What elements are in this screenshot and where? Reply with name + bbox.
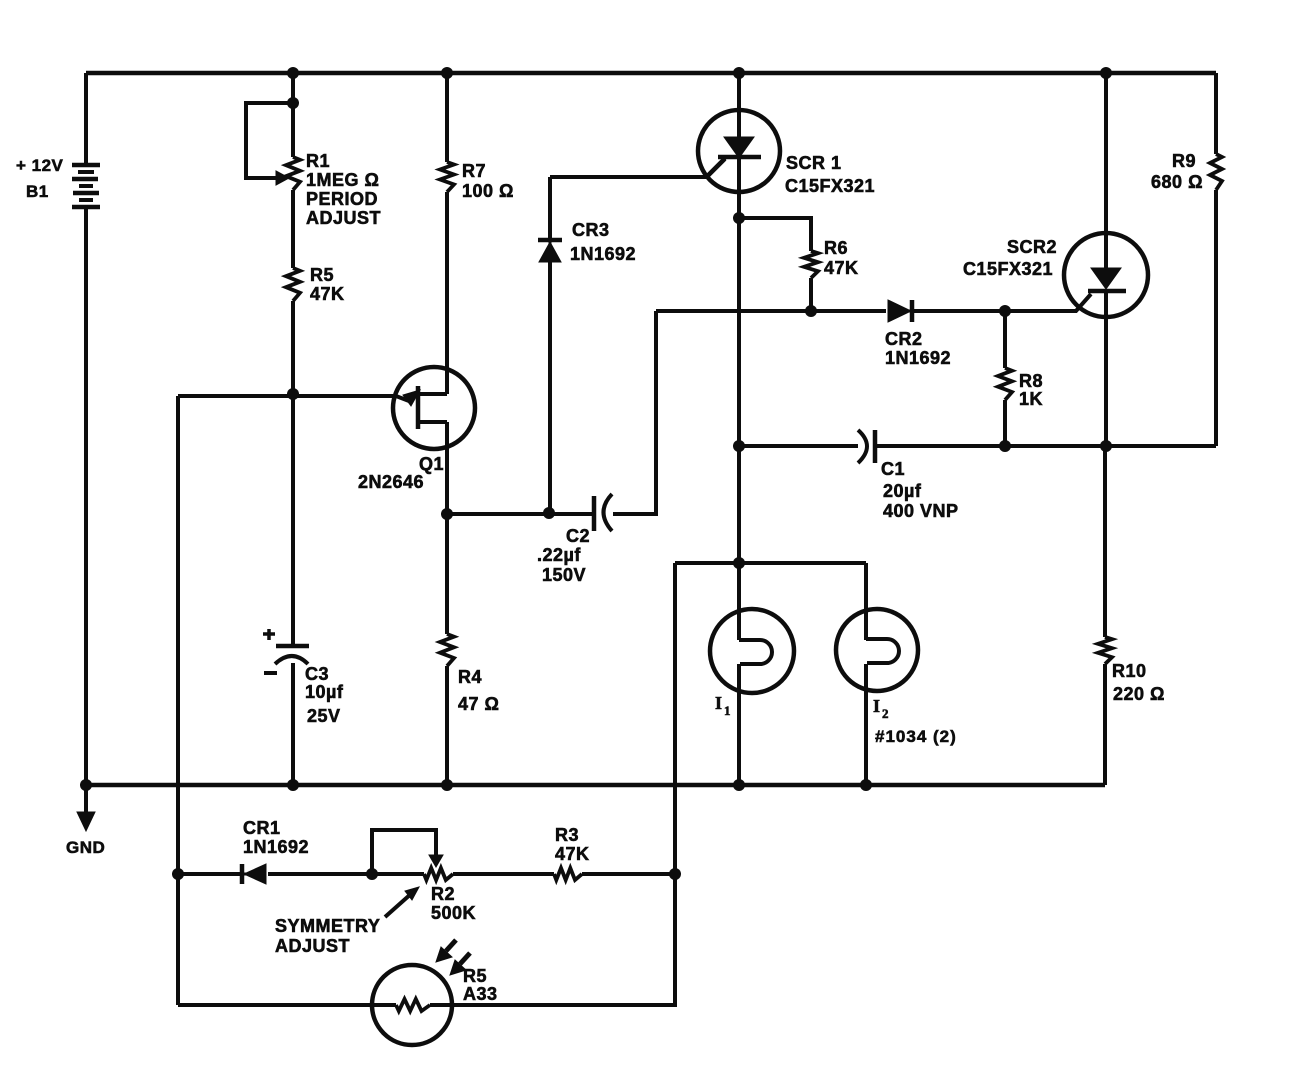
SCR1 triangle <box>724 137 754 158</box>
node dot Q1 base1 node <box>441 508 453 520</box>
wire R8 top <box>1003 311 1007 368</box>
svg-text:150V: 150V <box>542 565 586 585</box>
svg-text:R5: R5 <box>310 265 334 285</box>
svg-text:25V: 25V <box>307 706 341 726</box>
svg-text:R10: R10 <box>1112 661 1147 681</box>
node dot SCR1 cathode/R6 <box>733 212 745 224</box>
svg-text:R2: R2 <box>431 884 455 904</box>
svg-text:10µf: 10µf <box>305 682 344 702</box>
wire gate bus y311 <box>656 309 886 313</box>
wire SCR2 anode <box>1104 73 1108 268</box>
svg-text:PERIOD: PERIOD <box>306 189 378 209</box>
SCR1 cathode bar <box>718 155 761 160</box>
wire base1 node to R4 <box>445 514 449 634</box>
wire photocell row <box>178 1003 396 1007</box>
svg-text:47K: 47K <box>824 258 859 278</box>
capacitor C1 <box>858 430 875 463</box>
wire R10 lower lead <box>1103 664 1107 785</box>
wire left vertical to lower loop <box>176 396 180 1005</box>
resistor R8 1K <box>998 368 1012 400</box>
wire CR3 bottom to C2 node <box>548 262 552 512</box>
svg-text:R3: R3 <box>555 825 579 845</box>
svg-text:400 VNP: 400 VNP <box>883 501 959 521</box>
resistor R6 47K <box>804 251 818 278</box>
wire R3 to right vertical <box>582 872 675 876</box>
svg-text:R4: R4 <box>458 667 482 687</box>
resistor R1 1MEG <box>286 157 300 190</box>
svg-text:C15FX321: C15FX321 <box>785 176 875 196</box>
node dot top rail at R1 <box>287 67 299 79</box>
node dot top rail at SCR1 <box>733 67 745 79</box>
wire left lamp-loop vertical <box>673 563 677 1005</box>
node dot C1 left node <box>733 440 745 452</box>
node dot top rail at SCR2 <box>1100 67 1112 79</box>
node dot wire446 at SCR2 <box>1100 440 1112 452</box>
wire Q1 base1 down <box>445 422 449 514</box>
wire CR3 top from gate1 <box>548 177 552 238</box>
svg-text:1N1692: 1N1692 <box>243 837 309 857</box>
wire lamp top bus <box>675 561 866 565</box>
resistor R3 47K <box>554 868 582 880</box>
svg-text:I: I <box>873 696 880 716</box>
node dot CR1 row left <box>172 868 184 880</box>
wire R8 bottom <box>1003 400 1007 446</box>
wire lamp I1 bottom lead <box>737 664 741 785</box>
node dot emitter node <box>287 388 299 400</box>
photocell light arrow 2 <box>450 953 470 975</box>
svg-text:2: 2 <box>882 706 889 721</box>
wire SCR1 anode <box>737 73 741 137</box>
svg-text:#1034 (2): #1034 (2) <box>875 727 957 746</box>
svg-text:I: I <box>715 693 722 713</box>
wire R2 wiper loop <box>372 830 436 874</box>
svg-text:SCR2: SCR2 <box>1007 237 1057 257</box>
capacitor C3 <box>275 646 309 664</box>
potentiometer R2 500K <box>424 868 453 880</box>
SCR2 cathode bar <box>1088 289 1126 294</box>
svg-text:B1: B1 <box>26 182 49 201</box>
wire R1 to R5 <box>291 190 295 268</box>
capacitor C3 plus sign <box>263 629 275 640</box>
wire C1 right <box>876 444 1216 448</box>
wire CR2 to SCR2 gate <box>913 294 1091 311</box>
SCR2 triangle <box>1091 268 1121 289</box>
svg-text:C15FX321: C15FX321 <box>963 259 1053 279</box>
Q1 base2 jog <box>418 392 447 396</box>
wire battery bottom lead <box>84 207 88 785</box>
wire top supply rail <box>86 71 1216 76</box>
R2 wiper arrow <box>429 855 443 867</box>
transistor Q1 circle <box>393 367 475 449</box>
SCR1 gate lead <box>707 159 725 177</box>
svg-text:R7: R7 <box>462 161 486 181</box>
wire emitter horizontal <box>178 394 396 398</box>
wire lamp I2 bottom lead <box>864 664 868 785</box>
wire C3 to ground rail <box>291 663 295 785</box>
svg-text:2N2646: 2N2646 <box>358 472 424 492</box>
wire SCR1 gate horizontal <box>550 158 725 177</box>
lamp I2 circle <box>836 609 918 691</box>
wire R7 branch top <box>445 73 449 162</box>
symmetry adjust pointer <box>385 887 419 917</box>
svg-text:500K: 500K <box>431 903 476 923</box>
resistor R4 47 <box>440 634 454 666</box>
node dot gnd rail battery <box>80 779 92 791</box>
svg-text:220 Ω: 220 Ω <box>1113 684 1165 704</box>
wire R1/R5 branch upper <box>291 73 295 157</box>
svg-text:A33: A33 <box>463 984 498 1004</box>
svg-text:1N1692: 1N1692 <box>885 348 951 368</box>
resistor R10 220 <box>1098 637 1112 664</box>
node dot R2 loop left <box>366 868 378 880</box>
R1 wiper arrow <box>276 171 289 185</box>
lamp I1 filament <box>739 640 772 664</box>
photocell R5 circle <box>372 965 452 1045</box>
node dot lamp bus SCR1 <box>733 557 745 569</box>
node dot gnd rail R4 <box>441 779 453 791</box>
node dot gnd rail I1 <box>733 779 745 791</box>
wire C1 left <box>739 444 858 448</box>
svg-text:R6: R6 <box>824 238 848 258</box>
wire CR1 row left <box>178 872 241 876</box>
svg-text:SCR 1: SCR 1 <box>786 153 842 173</box>
diode CR1 <box>242 864 266 884</box>
svg-text:20µf: 20µf <box>883 481 922 501</box>
svg-text:R8: R8 <box>1019 371 1043 391</box>
wire R10 upper lead <box>1103 446 1107 637</box>
svg-text:+ 12V: + 12V <box>16 156 64 175</box>
Q1 base1 jog <box>418 420 447 424</box>
wire R9 top lead <box>1214 73 1218 154</box>
node dot R1 loop top <box>287 97 299 109</box>
node dot gnd rail C3 <box>287 779 299 791</box>
thyristor SCR1 circle <box>698 110 780 192</box>
battery B1 <box>72 165 100 207</box>
svg-text:CR2: CR2 <box>885 329 923 349</box>
wire base1 node to C2 <box>447 512 592 516</box>
node dot CR3/C2 node <box>543 507 555 519</box>
wire SCR1 cathode to R6 <box>739 218 811 251</box>
wire R2 to R3 <box>453 872 554 876</box>
diode CR2 <box>888 300 912 322</box>
resistor R7 100 <box>440 162 454 192</box>
svg-text:100 Ω: 100 Ω <box>462 181 514 201</box>
Q1 base bar <box>416 386 421 429</box>
node dot gnd rail I2 <box>860 779 872 791</box>
capacitor C3 minus sign <box>264 671 277 675</box>
capacitor C2 <box>594 494 612 531</box>
svg-text:680 Ω: 680 Ω <box>1151 172 1203 192</box>
wire C2 right to riser <box>613 311 656 514</box>
svg-text:SYMMETRY: SYMMETRY <box>275 916 380 936</box>
resistor R9 680 <box>1210 154 1222 190</box>
svg-text:47 Ω: 47 Ω <box>458 694 499 714</box>
svg-text:.22µf: .22µf <box>537 545 581 565</box>
wire lamp I2 top lead <box>864 563 868 640</box>
wire R1 wiper loop <box>246 103 293 178</box>
wire R5 down to emitter node <box>291 301 295 646</box>
photocell light arrow 1 <box>436 940 456 962</box>
wire R6 bottom <box>809 278 813 311</box>
svg-text:CR1: CR1 <box>243 818 281 838</box>
wire R4 to ground rail <box>445 666 449 785</box>
svg-text:R5: R5 <box>463 966 487 986</box>
lamp I2 filament <box>866 639 899 663</box>
Q1 emitter arrow <box>396 390 420 406</box>
svg-text:ADJUST: ADJUST <box>275 936 350 956</box>
svg-text:R9: R9 <box>1172 151 1196 171</box>
wire bottom ground rail <box>86 783 1105 788</box>
lamp I1 circle <box>710 609 794 693</box>
ground GND arrow <box>77 785 95 831</box>
svg-text:47K: 47K <box>310 284 345 304</box>
svg-text:GND: GND <box>66 838 105 857</box>
node dot R6 bottom <box>805 305 817 317</box>
svg-text:C1: C1 <box>881 459 905 479</box>
photocell element <box>396 999 430 1011</box>
resistor R5 47K <box>286 268 300 301</box>
node dot R8 top <box>999 305 1011 317</box>
svg-text:C2: C2 <box>566 526 590 546</box>
svg-text:1K: 1K <box>1019 389 1043 409</box>
svg-text:1: 1 <box>724 703 731 718</box>
svg-text:47K: 47K <box>555 844 590 864</box>
node dot R3 right node <box>669 868 681 880</box>
wire R7 to Q1 base2 <box>445 192 449 394</box>
svg-text:1MEG Ω: 1MEG Ω <box>306 170 379 190</box>
svg-text:C3: C3 <box>305 664 329 684</box>
diode CR3 <box>538 240 562 262</box>
wire battery top lead <box>84 73 88 165</box>
svg-text:ADJUST: ADJUST <box>306 208 381 228</box>
wire R9 bottom lead <box>1214 190 1218 446</box>
svg-text:1N1692: 1N1692 <box>570 244 636 264</box>
svg-text:Q1: Q1 <box>419 454 444 474</box>
wire photocell to corner <box>430 874 675 1005</box>
wire SCR1 cathode down <box>737 158 741 640</box>
node dot R8 bottom <box>999 440 1011 452</box>
wire SCR2 cathode <box>1104 291 1108 446</box>
wire CR1 to R2 <box>268 872 424 876</box>
svg-text:R1: R1 <box>306 151 330 171</box>
svg-text:CR3: CR3 <box>572 220 610 240</box>
thyristor SCR2 circle <box>1064 233 1148 317</box>
node dot top rail at R7 <box>441 67 453 79</box>
